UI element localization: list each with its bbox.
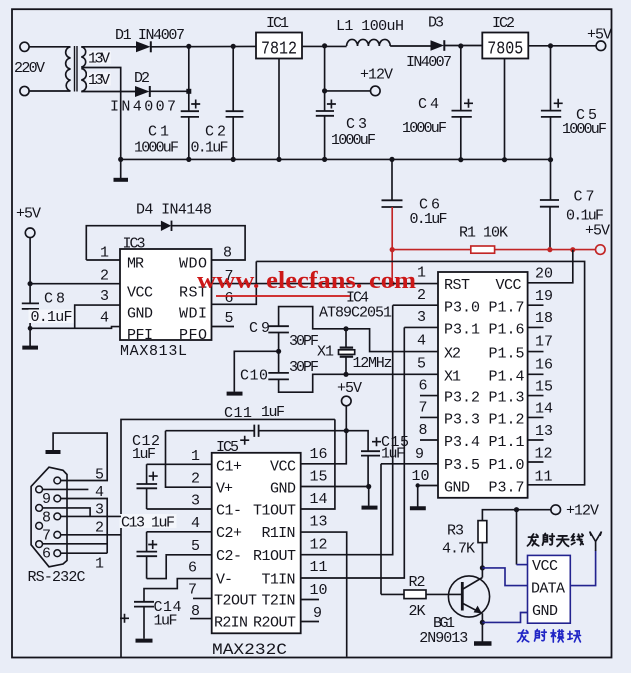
svg-text:18: 18: [535, 310, 553, 327]
svg-text:www. elecfans. com: www. elecfans. com: [197, 268, 416, 294]
svg-text:MAX813L: MAX813L: [120, 343, 187, 360]
svg-text:T1IN: T1IN: [262, 572, 296, 589]
svg-text:1000uF: 1000uF: [331, 132, 376, 149]
node rail junctions: [118, 157, 553, 163]
svg-text:VCC: VCC: [532, 558, 558, 575]
wire secondary center tap: [81, 68, 120, 160]
svg-text:GND: GND: [532, 603, 558, 620]
wire DB9 pin5 to ground: [53, 433, 107, 480]
svg-text:R3: R3: [447, 523, 464, 540]
ground main rail: [114, 159, 129, 179]
svg-text:1: 1: [417, 265, 426, 282]
wire VCC riser IC4 pin20: [528, 250, 573, 283]
wire P3.5 pin9 stub: [381, 463, 438, 465]
connector RS-232C DB9 shell: [31, 467, 67, 567]
wire P3.1 riser to T1IN: [301, 327, 405, 578]
svg-text:7: 7: [42, 528, 51, 545]
diode D4 IN4148: [161, 221, 172, 231]
svg-text:1uF: 1uF: [261, 404, 285, 421]
svg-text:13V: 13V: [88, 72, 110, 89]
node collector junction: [480, 565, 485, 570]
wire D4 loop MR to WDO: [86, 226, 245, 260]
wire emitter down: [481, 613, 483, 642]
node crystal top: [343, 326, 348, 331]
svg-text:4: 4: [100, 310, 109, 327]
svg-text:6: 6: [419, 378, 428, 395]
crystal block: C9 lead loop: [279, 307, 346, 329]
transformer T1 core: [75, 46, 78, 92]
label 13V upper: [87, 51, 111, 68]
wire secondary top to D1: [81, 46, 136, 48]
svg-text:1000uF: 1000uF: [562, 121, 607, 138]
wire GND pin10 down: [417, 486, 419, 507]
svg-text:8: 8: [191, 603, 200, 620]
svg-text:+5V: +5V: [16, 206, 41, 223]
svg-text:30PF: 30PF: [289, 359, 319, 376]
svg-text:12: 12: [310, 537, 328, 554]
svg-text:C10: C10: [240, 368, 268, 385]
label 发射天线: [527, 534, 583, 547]
ground IC4 GND: [410, 506, 426, 510]
wire V- pin6 path to C14: [144, 579, 212, 602]
node crystal mid tap: [276, 349, 281, 354]
node top rail junctions: [186, 43, 553, 49]
wire X2 pin4 path: [346, 329, 438, 352]
svg-text:2: 2: [100, 268, 109, 285]
svg-text:T2OUT: T2OUT: [214, 593, 257, 610]
pin PFO stub: [212, 326, 235, 328]
ground crystal: [227, 392, 243, 396]
IC U5 MAX232C box: [212, 453, 301, 634]
svg-text:+5V: +5V: [587, 27, 612, 44]
terminal +5V top right: [596, 41, 606, 51]
regulator IC2 7805: [482, 33, 528, 60]
emitter arrow: [474, 606, 482, 614]
pin stubs IC4 left short: [420, 396, 438, 440]
wire +12V tap: [325, 90, 371, 92]
svg-text:6: 6: [188, 560, 197, 577]
svg-text:P3.7: P3.7: [489, 480, 525, 497]
wire C1+ pin1 stub: [147, 463, 212, 465]
svg-text:R2OUT: R2OUT: [253, 615, 296, 632]
svg-text:15: 15: [535, 379, 553, 396]
svg-text:P1.1: P1.1: [489, 434, 525, 451]
DB9 pin circles right column: [54, 477, 61, 556]
wire T1OUT top run: [121, 419, 335, 657]
svg-text:P1.3: P1.3: [489, 390, 525, 407]
wire red +5V bus: [392, 249, 595, 251]
svg-text:15: 15: [310, 469, 328, 486]
DB9 pin circles left column: [36, 486, 43, 547]
svg-text:2N9013: 2N9013: [419, 630, 468, 647]
label 发射模块: [518, 630, 581, 643]
svg-text:1000uF: 1000uF: [402, 120, 447, 137]
wire +12V to module VCC: [516, 510, 518, 565]
resistor R3 4.7K: [478, 521, 487, 543]
svg-text:GND: GND: [444, 480, 470, 497]
pin stubs IC4 right short: [528, 305, 544, 462]
svg-text:C13 1uF: C13 1uF: [121, 515, 175, 532]
svg-text:C1+: C1+: [216, 459, 242, 476]
svg-text:VCC: VCC: [127, 285, 153, 302]
svg-text:+12V: +12V: [360, 67, 393, 84]
svg-text:3: 3: [191, 493, 200, 510]
wire IC3 GND pin3 jog: [75, 305, 120, 328]
label 0.1uF (C8): [29, 309, 75, 326]
svg-text:T1OUT: T1OUT: [253, 503, 296, 520]
wire C9 to C10: [278, 333, 280, 373]
svg-text:PFO: PFO: [179, 327, 207, 344]
svg-text:D1 IN4007: D1 IN4007: [115, 27, 185, 44]
svg-text:P3.3: P3.3: [444, 412, 480, 429]
wire MR pin1 stub: [86, 259, 120, 261]
IC U4 AT89C2051 box: [438, 272, 528, 498]
svg-text:1uF: 1uF: [132, 446, 156, 463]
wire DB9 pin4 loop pin6: [43, 499, 108, 554]
svg-text:16: 16: [310, 446, 328, 463]
wire C2+ pin4 stub: [147, 531, 212, 533]
svg-text:VCC: VCC: [270, 459, 296, 476]
svg-text:R2: R2: [409, 574, 426, 591]
wire P3.0 riser to R1OUT: [301, 305, 393, 555]
svg-text:L1 100uH: L1 100uH: [336, 18, 404, 35]
svg-text:8: 8: [419, 422, 428, 439]
svg-text:8: 8: [42, 510, 51, 527]
svg-text:+5V: +5V: [337, 380, 362, 397]
capacitor C10 30PF: [268, 373, 289, 380]
svg-text:GND: GND: [127, 306, 153, 323]
svg-text:WDI: WDI: [179, 306, 207, 323]
svg-text:X2: X2: [444, 346, 461, 363]
wire WDI riser: [212, 261, 257, 304]
svg-text:RS-232C: RS-232C: [28, 569, 86, 586]
wire +5V node C15: [346, 406, 368, 451]
capacitor C1 1000uF: [181, 46, 201, 159]
svg-text:5: 5: [417, 356, 426, 373]
transformer T1 primary winding: [66, 47, 71, 91]
ground BG1 emitter: [474, 641, 492, 646]
svg-text:P3.0: P3.0: [444, 300, 480, 317]
wire DB9 pin8 loop pin7: [43, 508, 91, 517]
svg-text:11: 11: [535, 469, 553, 486]
wire GND pin15: [301, 486, 369, 488]
svg-text:13: 13: [535, 423, 553, 440]
svg-text:14: 14: [310, 491, 328, 508]
node C8 junctions: [28, 281, 33, 331]
wire C15 to ground: [368, 487, 370, 506]
pin IC1 GND lead: [278, 59, 280, 160]
wire primary leads: [29, 47, 70, 91]
svg-text:20: 20: [535, 266, 553, 283]
svg-text:T2IN: T2IN: [262, 593, 296, 610]
ground C8: [22, 346, 38, 350]
capacitor C9 30PF: [268, 326, 289, 332]
ground DB9: [46, 450, 61, 454]
svg-text:10: 10: [412, 468, 430, 485]
wire R1IN pin13 riser: [301, 532, 347, 657]
RF module box: [528, 555, 571, 623]
capacitor C2 0.1uF: [226, 46, 244, 159]
svg-text:P3.1: P3.1: [444, 322, 480, 339]
svg-text:1: 1: [95, 556, 104, 573]
antenna symbol: [590, 532, 602, 552]
svg-text:0.1uF: 0.1uF: [191, 140, 229, 157]
regulator IC1 7812: [256, 33, 302, 60]
wire red C6 lead down: [391, 207, 393, 284]
wire VCC pin16 riser: [301, 431, 347, 464]
node crystal bottom: [343, 372, 348, 377]
svg-text:P1.5: P1.5: [489, 346, 525, 363]
svg-text:C2-: C2-: [216, 548, 242, 565]
svg-text:P1.7: P1.7: [489, 300, 525, 317]
svg-text:R1OUT: R1OUT: [253, 548, 296, 565]
ground C14: [136, 639, 153, 643]
wire ground rail: [121, 158, 551, 160]
diode D3 IN4007: [431, 40, 445, 51]
svg-text:VCC: VCC: [496, 277, 522, 294]
wire C1- pin3 stub: [147, 508, 212, 510]
wire D3 to IC2: [444, 45, 482, 47]
svg-text:4: 4: [417, 333, 426, 350]
wire IC2 out to +5V: [528, 45, 596, 47]
terminal +5V (C15): [342, 396, 352, 406]
capacitor C13 1uF: [137, 532, 158, 579]
svg-text:3: 3: [100, 288, 109, 305]
wire IC4 pin3 P3.1 stub: [404, 326, 438, 328]
terminal 220V input top: [20, 42, 29, 95]
svg-text:3: 3: [417, 309, 426, 326]
svg-text:P1.6: P1.6: [489, 322, 525, 339]
svg-text:P1.2: P1.2: [489, 412, 525, 429]
svg-text:IC3: IC3: [123, 236, 146, 253]
svg-text:X1: X1: [444, 369, 461, 386]
wire D2 to C1 node: [150, 90, 189, 92]
wire DB9 pin3 line: [61, 515, 121, 517]
svg-text:16: 16: [535, 357, 553, 374]
crystal X1 12MHz: [339, 348, 355, 357]
wire antenna feed: [570, 551, 595, 586]
wire +5V down to C8: [29, 238, 31, 304]
svg-text:7: 7: [419, 400, 428, 417]
terminal +5V mid right: [596, 245, 606, 255]
svg-text:10: 10: [310, 582, 328, 599]
svg-text:8: 8: [223, 245, 232, 262]
wire DB9 pin9 stub: [43, 488, 89, 490]
svg-text:R1 10K: R1 10K: [459, 225, 508, 242]
wire C11 net V+ to VCC: [166, 430, 347, 432]
wire R2IN pin8 stub: [190, 618, 212, 620]
capacitor C14 1uF: [120, 602, 154, 639]
svg-text:V-: V-: [216, 572, 233, 589]
svg-text:R1IN: R1IN: [262, 525, 296, 542]
svg-text:DATA: DATA: [531, 581, 565, 598]
wire T2OUT pin7 stub: [193, 597, 212, 599]
capacitor C5 1000uF: [541, 46, 563, 160]
svg-text:13V: 13V: [88, 51, 110, 68]
node +5V C15 junction: [344, 428, 349, 433]
wire module VCC stub: [517, 564, 528, 566]
svg-text:9: 9: [313, 605, 322, 622]
svg-text:IC2: IC2: [492, 15, 515, 32]
watermark www.elecfans.com: [197, 268, 416, 296]
wire C10 bottom loop: [279, 374, 346, 392]
svg-text:D3: D3: [428, 15, 444, 32]
svg-text:X1: X1: [317, 344, 334, 361]
resistor R2 2K: [404, 590, 426, 599]
node red junctions: [390, 247, 576, 286]
wire RST net IC3 pin7 to IC4 pin1: [212, 283, 439, 285]
svg-text:7: 7: [188, 582, 197, 599]
wire WDI to P3.7 bus: [256, 261, 584, 484]
svg-text:1: 1: [191, 448, 200, 465]
capacitor C8 0.1uF: [22, 303, 39, 346]
wire DB9 pin1 stub: [61, 552, 107, 554]
capacitor C6 0.1uF: [382, 159, 403, 207]
svg-text:2K: 2K: [409, 603, 426, 620]
capacitor C7 0.1uF: [540, 160, 559, 250]
wire IC3 VCC pin2: [30, 283, 120, 285]
svg-text:1uF: 1uF: [154, 613, 178, 630]
pin IC2 GND lead: [504, 59, 506, 160]
svg-text:0.1uF: 0.1uF: [410, 211, 448, 228]
terminal +12V: [371, 86, 381, 96]
svg-text:5: 5: [225, 310, 234, 327]
svg-text:C1-: C1-: [216, 503, 242, 520]
wire IC3 PFI pin4: [30, 327, 120, 329]
capacitor C15 1uF: [361, 437, 381, 486]
ground C15: [362, 506, 378, 510]
label 13V lower: [87, 72, 111, 89]
wire DB9 pin2 line: [61, 534, 121, 536]
terminal +12V lower: [551, 505, 561, 515]
wire IC4 pin2 P3.0 stub: [393, 304, 438, 306]
wire V+ riser pin2: [166, 431, 212, 488]
wire R3 top to +12V: [482, 510, 551, 521]
svg-text:4.7K: 4.7K: [442, 541, 475, 558]
svg-text:+12V: +12V: [566, 503, 599, 520]
svg-text:RST: RST: [444, 277, 470, 294]
svg-text:1: 1: [100, 245, 109, 262]
wire R2OUT pin9 stub: [301, 621, 319, 623]
terminal +5V left (IC3): [25, 228, 35, 238]
svg-text:V+: V+: [216, 481, 233, 498]
svg-text:1000uF: 1000uF: [134, 140, 179, 157]
svg-text:IN4007: IN4007: [406, 54, 452, 71]
svg-text:+5V: +5V: [585, 223, 610, 240]
svg-text:2: 2: [95, 520, 104, 537]
wire mid tap to ground: [234, 351, 278, 392]
label C13 1uF: [120, 514, 177, 532]
node emitter junction: [480, 620, 485, 625]
svg-text:GND: GND: [270, 481, 296, 498]
wire T2IN pin10 stub: [301, 599, 319, 601]
svg-text:5: 5: [191, 538, 200, 555]
wire L1 to D3: [390, 45, 430, 47]
svg-text:19: 19: [535, 288, 553, 305]
svg-text:MAX232C: MAX232C: [212, 641, 287, 659]
wire C2- pin5 jog: [147, 555, 212, 579]
node +12V branch: [514, 507, 519, 512]
svg-text:13: 13: [310, 514, 328, 531]
svg-text:P3.2: P3.2: [444, 390, 480, 407]
IC U3 MAX813L box: [120, 249, 212, 340]
node GND pin10: [416, 483, 420, 487]
svg-text:12MHz: 12MHz: [353, 355, 393, 372]
svg-text:D2: D2: [134, 70, 150, 87]
node +12V tap junction: [322, 88, 327, 93]
svg-text:9: 9: [415, 446, 424, 463]
transformer T1 secondary windings: [81, 47, 86, 92]
resistor R1 10K: [471, 246, 495, 253]
wire T1OUT pin14 riser: [301, 419, 335, 509]
wire secondary bottom to D2: [81, 91, 135, 93]
svg-text:P1.4: P1.4: [489, 369, 525, 386]
svg-text:12: 12: [535, 446, 553, 463]
diode D1 IN4007: [136, 41, 151, 52]
wire emitter to module GND: [482, 613, 527, 623]
capacitor C4 1000uF: [452, 46, 474, 160]
capacitor C3 1000uF: [316, 46, 336, 159]
wire collector to DATA: [482, 568, 527, 586]
svg-text:R2IN: R2IN: [214, 615, 248, 632]
svg-text:PFI: PFI: [127, 327, 153, 344]
wire R3 bottom to collector: [481, 543, 483, 578]
svg-text:17: 17: [535, 334, 553, 351]
svg-text:11: 11: [310, 559, 328, 576]
capacitor C11 1uF: [240, 425, 258, 445]
svg-text:2: 2: [191, 471, 200, 488]
svg-text:220V: 220V: [14, 60, 45, 77]
svg-text:30PF: 30PF: [289, 333, 319, 350]
svg-text:6: 6: [42, 546, 51, 563]
svg-text:7805: 7805: [487, 40, 523, 60]
svg-text:P1.0: P1.0: [489, 457, 525, 474]
svg-text:MR: MR: [127, 256, 144, 273]
svg-text:2: 2: [417, 287, 426, 304]
capacitor C12 1uF: [137, 464, 158, 509]
svg-text:7812: 7812: [261, 40, 297, 60]
wire X1 pin5 path: [346, 373, 438, 375]
wire R2 leads: [381, 593, 462, 595]
svg-text:4: 4: [191, 515, 200, 532]
node D2-C1 junction: [186, 89, 191, 94]
svg-text:AT89C2051: AT89C2051: [319, 305, 392, 322]
node C15 gnd junction: [366, 484, 371, 489]
wire crystal top lead: [345, 329, 347, 375]
diode D2 IN4007: [135, 86, 150, 97]
svg-text:P3.4: P3.4: [444, 434, 480, 451]
wire P3.5 riser to R2: [380, 464, 382, 595]
svg-text:IC5: IC5: [216, 439, 239, 456]
inductor L1 100uH: [347, 39, 391, 46]
transistor BG1 2N9013: [448, 576, 489, 617]
svg-text:P3.5: P3.5: [444, 457, 480, 474]
svg-text:1uF: 1uF: [381, 446, 405, 463]
svg-text:14: 14: [535, 401, 553, 418]
svg-text:0.1uF: 0.1uF: [31, 309, 73, 326]
wire D1 to IC1: [151, 45, 256, 47]
wire GND pin10 stub: [418, 485, 438, 487]
svg-text:9: 9: [42, 491, 51, 508]
svg-text:D4 IN4148: D4 IN4148: [136, 202, 212, 219]
svg-text:C2+: C2+: [216, 525, 242, 542]
svg-text:IC1: IC1: [266, 15, 289, 32]
wire IC1 out to L1: [302, 45, 347, 47]
